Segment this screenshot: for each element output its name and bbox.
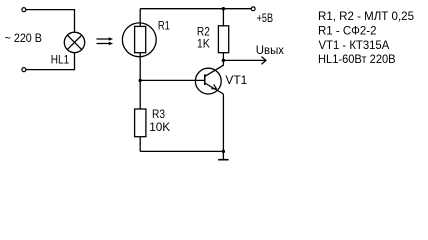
resistor R2 [218,26,228,53]
wire lamp to bottom-left terminal [26,53,75,70]
svg-text:R1: R1 [158,19,170,33]
ground [218,151,228,159]
svg-text:10K: 10K [149,120,170,134]
svg-text:Uвых: Uвых [256,43,284,57]
lamp HL1 [64,32,84,52]
node collector / output [222,59,225,62]
svg-text:R3: R3 [152,107,165,121]
photoresistor R1 [122,23,156,57]
transistor VT1 [195,60,223,94]
node bottom rail / ground [222,150,225,153]
top rail [140,8,251,10]
svg-text:VT1: VT1 [225,73,247,87]
svg-text:+5В: +5В [257,11,273,25]
base junction node [139,79,142,82]
terminal +5V [251,7,255,11]
svg-text:VT1 - КТ315А: VT1 - КТ315А [319,38,390,52]
svg-text:~ 220 В: ~ 220 В [5,31,42,45]
svg-text:R1 - СФ2-2: R1 - СФ2-2 [318,24,377,38]
equivalence double arrow [97,37,114,45]
emitter wire down [222,94,224,151]
svg-text:R1, R2 - МЛТ 0,25: R1, R2 - МЛТ 0,25 [318,9,414,23]
node top rail / R2 [222,7,225,10]
wire rail to R2 [222,9,224,26]
wire R2 to collector node [222,53,224,61]
terminal top-left [22,8,26,12]
svg-text:1K: 1K [197,37,210,51]
svg-text:HL1-60Вт 220В: HL1-60Вт 220В [318,52,396,66]
output arrow Uvyh [223,57,266,65]
base wire [140,79,205,81]
wire R3 to bottom rail [139,137,141,152]
wire R1 column (top rail to base junction to R3) [139,9,141,109]
wire top-left to lamp [26,10,75,33]
resistor R3 [135,109,146,137]
bottom rail [140,150,223,152]
terminal bottom-left [22,68,26,72]
svg-text:HL1: HL1 [51,53,70,67]
